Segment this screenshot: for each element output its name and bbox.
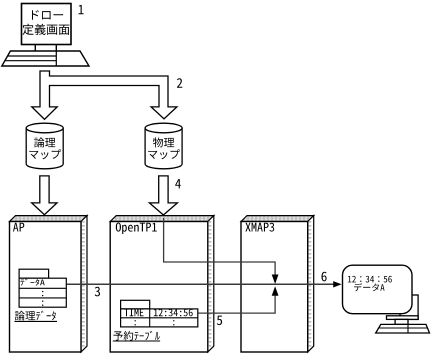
label 2	[177, 78, 182, 88]
monitor stand	[35, 45, 56, 52]
solid arrowhead pointing up onto data line	[272, 286, 279, 296]
hollow arrow from logical map into AP box	[32, 176, 57, 215]
label 4	[175, 179, 181, 188]
wire: from reservation table right edge up to data line (step 5)	[198, 296, 275, 314]
hollow arrow from keyboard splitting to both map files (step 2)	[32, 71, 177, 119]
label 6	[322, 272, 327, 282]
label 3	[95, 287, 100, 297]
computer: draw-definition terminal monitor	[22, 4, 72, 45]
box: OpenTP1	[110, 216, 214, 352]
box: XMAP3	[241, 216, 314, 352]
label: logical data (ronri data), underlined	[15, 311, 58, 322]
label 1	[79, 5, 84, 14]
hollow arrow from physical map into OpenTP1 box (step 4)	[149, 176, 177, 215]
box: AP (application program)	[10, 216, 88, 352]
label: reservation table (yoyaku table), underlined	[113, 331, 160, 341]
wire: inside OpenTP1 from arrow 4 down then right to XMAP3	[164, 218, 276, 275]
keyboard	[2, 51, 89, 66]
cylinder: logical map file	[26, 123, 63, 169]
label 5	[217, 316, 222, 326]
terminal: CRT monitor body behind screen	[387, 295, 419, 324]
table: logical data record in AP	[19, 269, 66, 307]
solid arrowhead pointing down onto data line	[272, 275, 279, 285]
cylinder: physical map file	[145, 123, 182, 169]
terminal: pedestal base	[376, 324, 430, 333]
solid arrowhead pointing right into terminal screen	[333, 281, 341, 287]
table: reservation table TIME 12:34:56	[121, 300, 198, 327]
wire: main data line from AP table to user terminal (steps 3 and 6)	[46, 283, 334, 285]
terminal: rounded screen showing result	[343, 265, 413, 314]
